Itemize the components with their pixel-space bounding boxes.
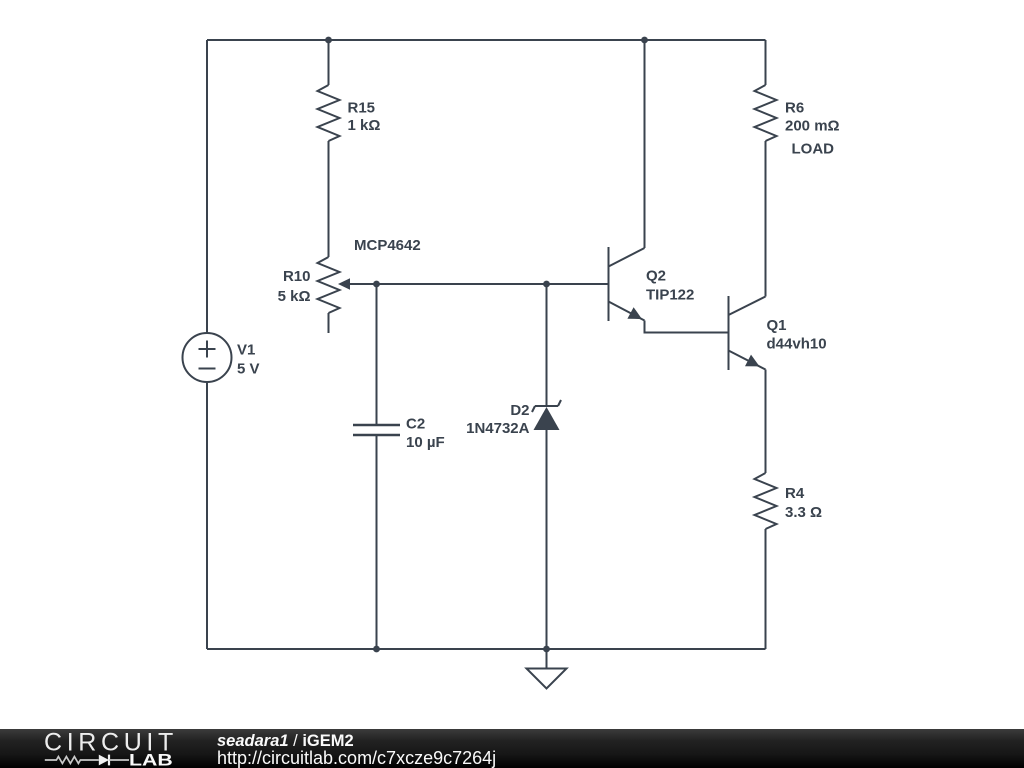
wire: D2 cathode lead	[546, 284, 548, 406]
wire: bottom ground rail	[207, 648, 766, 650]
svg-text:1 kΩ: 1 kΩ	[348, 117, 381, 134]
svg-text:LAB: LAB	[129, 751, 173, 768]
wire: D2 anode lead	[546, 430, 548, 649]
wire: R6 top lead	[765, 40, 767, 85]
svg-text:200 mΩ: 200 mΩ	[785, 118, 840, 135]
svg-text:R10: R10	[283, 268, 311, 285]
potentiometer R10	[318, 257, 340, 333]
wire: top rail from V1 to R6	[207, 39, 766, 41]
logo schematic: wire, resistor, diode	[45, 755, 129, 766]
transistor Q2	[609, 247, 645, 321]
svg-text:R4: R4	[785, 485, 805, 502]
wire: left rail from V1 - terminal to bottom rail	[206, 382, 208, 649]
wire: wiper node to Q2 base	[348, 283, 608, 285]
svg-text:TIP122: TIP122	[646, 287, 694, 304]
svg-text:D2: D2	[510, 402, 529, 419]
wiper arrow of R10	[338, 278, 350, 289]
svg-text:LOAD: LOAD	[792, 141, 835, 158]
wire: R15 to R10	[328, 141, 330, 257]
svg-text:MCP4642: MCP4642	[354, 237, 421, 254]
capacitor C2	[353, 425, 400, 435]
wire: Q1 emitter to R4	[765, 370, 767, 474]
svg-text:3.3 Ω: 3.3 Ω	[785, 504, 822, 521]
junction: wiper node / C2 branch	[373, 281, 380, 288]
junction: top rail / R15	[325, 37, 332, 44]
svg-text:Q1: Q1	[767, 317, 787, 334]
wire: Q2 collector to top rail	[644, 40, 646, 248]
resistor R6	[755, 85, 777, 141]
svg-text:d44vh10: d44vh10	[767, 336, 827, 353]
svg-text:V1: V1	[237, 342, 255, 359]
footer bar	[0, 729, 1024, 768]
voltage source V1	[183, 333, 232, 382]
wire: Q2 emitter to Q1 base	[645, 321, 729, 333]
ground symbol	[527, 649, 567, 689]
transistor Q1	[729, 296, 766, 370]
junction: bottom rail / C2	[373, 646, 380, 653]
svg-text:1N4732A: 1N4732A	[466, 420, 530, 437]
zener diode D2	[532, 400, 561, 430]
wire: C2 top lead	[376, 284, 378, 425]
junction: top rail / Q2 collector	[641, 37, 648, 44]
wire: R6 to Q1 collector	[765, 141, 767, 297]
resistor R15	[318, 85, 340, 141]
svg-text:R6: R6	[785, 100, 804, 117]
resistor R4	[755, 473, 777, 529]
wire: left rail from top rail to V1 + terminal	[206, 40, 208, 333]
wire: R15 top lead	[328, 40, 330, 85]
svg-text:Q2: Q2	[646, 268, 666, 285]
svg-text:C2: C2	[406, 416, 425, 433]
junction: wiper node / D2 branch	[543, 281, 550, 288]
wire: R4 bottom lead	[765, 529, 767, 649]
svg-text:R15: R15	[348, 100, 376, 117]
wire: C2 bottom lead	[376, 435, 378, 649]
svg-text:http://circuitlab.com/c7xcze9c: http://circuitlab.com/c7xcze9c7264j	[217, 748, 496, 768]
junction: bottom rail / D2 ground	[543, 646, 550, 653]
svg-text:5 V: 5 V	[237, 361, 260, 378]
svg-text:10 µF: 10 µF	[406, 434, 445, 451]
svg-text:5 kΩ: 5 kΩ	[278, 288, 311, 305]
